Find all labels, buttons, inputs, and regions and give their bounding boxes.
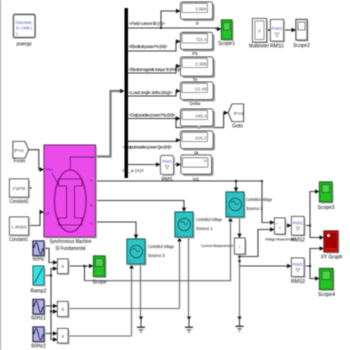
svg-text:Controlled Voltage: Controlled Voltage [148, 244, 175, 249]
svg-text:s: s [129, 260, 131, 264]
svg-text:Discrete,: Discrete, [16, 20, 33, 25]
svg-text:Controlled Voltage: Controlled Voltage [246, 197, 273, 202]
svg-text:2*pi*50: 2*pi*50 [12, 186, 26, 191]
svg-text:<Field current ifd (A)>: <Field current ifd (A)> [129, 21, 165, 26]
svg-text:RMS: RMS [272, 26, 283, 32]
svg-text:RMS3: RMS3 [291, 279, 305, 285]
svg-text:Scope3: Scope3 [318, 205, 335, 211]
svg-text:v: v [279, 226, 281, 230]
svg-text:RMS: RMS [162, 159, 172, 164]
svg-text:Scope1: Scope1 [218, 41, 235, 47]
svg-text:Ramp2: Ramp2 [30, 289, 46, 295]
svg-text:60Hz2: 60Hz2 [31, 344, 46, 350]
svg-text:Ia1: Ia1 [193, 177, 200, 182]
svg-text:Scope: Scope [92, 280, 106, 286]
svg-text:Te: Te [193, 77, 198, 82]
svg-text:Constant1: Constant1 [9, 237, 28, 243]
svg-text:Scope2: Scope2 [293, 43, 310, 49]
svg-text:[Pso]: [Pso] [14, 148, 23, 153]
svg-text:<Output active power Pso (W)>: <Output active power Pso (W)> [129, 113, 176, 118]
svg-text:<is_a (A)>: <is_a (A)> [122, 168, 144, 173]
svg-text:C: C [90, 221, 93, 226]
svg-text:[Pso]: [Pso] [234, 111, 243, 116]
svg-text:Goto: Goto [232, 124, 243, 130]
svg-text:Q: Q [194, 151, 198, 156]
svg-text:RMS2: RMS2 [291, 238, 305, 244]
svg-text:725.4: 725.4 [195, 37, 207, 42]
svg-text:626.2: 626.2 [195, 136, 207, 141]
svg-text:A: A [90, 178, 93, 183]
svg-text:Synchronous Machine: Synchronous Machine [50, 239, 92, 245]
svg-text:From: From [14, 159, 26, 165]
svg-text:x: x [61, 264, 64, 270]
svg-text:Vf: Vf [45, 212, 50, 217]
svg-text:249.4: 249.4 [195, 114, 207, 119]
svg-text:Multimeter: Multimeter [249, 44, 269, 50]
svg-text:x: x [61, 334, 64, 340]
svg-text:Delta: Delta [190, 101, 201, 106]
svg-text:Source 3: Source 3 [148, 253, 165, 258]
svg-text:powergui: powergui [17, 42, 32, 48]
svg-text:-22.49: -22.49 [194, 87, 207, 92]
svg-text:If: If [196, 21, 199, 26]
svg-text:Source 2: Source 2 [246, 206, 263, 211]
svg-text:Ts = 0.0005 s.: Ts = 0.0005 s. [16, 26, 33, 31]
svg-text:SI Fundamental: SI Fundamental [56, 246, 86, 252]
svg-text:s: s [177, 233, 179, 237]
svg-text:RMS1: RMS1 [270, 44, 284, 50]
svg-text:RMS: RMS [293, 221, 303, 226]
svg-text:RMS: RMS [161, 177, 173, 183]
svg-text:B: B [90, 203, 93, 208]
svg-text:x: x [61, 307, 64, 313]
svg-text:Scope4: Scope4 [318, 292, 335, 298]
svg-text:Constant2: Constant2 [10, 199, 29, 205]
svg-text:60Hz1: 60Hz1 [31, 316, 46, 322]
svg-text:<Electromagnetic torque Te (N*: <Electromagnetic torque Te (N*m)> [129, 67, 182, 72]
svg-text:60Hz: 60Hz [33, 257, 45, 263]
svg-text:13: 13 [203, 159, 207, 163]
svg-text:Source 1: Source 1 [196, 226, 213, 231]
svg-text:<Electrical power Pe (W)>: <Electrical power Pe (W)> [129, 44, 168, 49]
svg-text:3.004: 3.004 [195, 7, 207, 12]
svg-text:Controlled Voltage: Controlled Voltage [196, 217, 223, 222]
svg-text:<Output reactive power Qso (W): <Output reactive power Qso (W)> [123, 145, 172, 150]
svg-text:<Load angle delta (deg)>: <Load angle delta (deg)> [129, 90, 173, 95]
svg-text:Pm: Pm [46, 167, 53, 172]
svg-text:XY Graph: XY Graph [321, 255, 343, 261]
svg-text:+: + [276, 222, 278, 226]
svg-text:1.463e6: 1.463e6 [11, 225, 27, 230]
svg-text:2.309: 2.309 [195, 62, 207, 67]
svg-text:Pe: Pe [192, 51, 198, 56]
svg-text:Current Measurement: Current Measurement [201, 243, 234, 248]
svg-text:s: s [228, 213, 230, 217]
svg-text:RMS: RMS [293, 262, 303, 267]
